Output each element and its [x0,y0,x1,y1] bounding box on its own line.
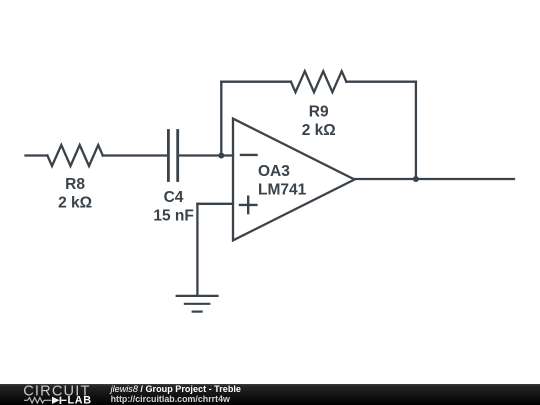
wire input left [26,154,48,156]
node A junction dot [218,153,224,159]
label op-amp OA3 [258,163,290,180]
feedback wire top right [346,81,416,83]
output node junction dot [413,176,419,182]
svg-text:R8: R8 [65,176,85,193]
wire output [355,178,515,180]
feedback wire left vertical [220,82,222,156]
svg-text:LAB: LAB [68,395,92,405]
svg-text:2 kΩ: 2 kΩ [58,195,92,212]
feedback wire right vertical [415,82,417,179]
op-amp U1 triangle [233,119,355,241]
svg-text:http://circuitlab.com/chrrt4w: http://circuitlab.com/chrrt4w [111,394,230,404]
capacitor C4 [168,131,177,181]
op-amp non-inverting input plus sign [240,197,256,213]
label R8 [65,176,85,193]
label R8 value 2 kOhm [58,195,92,212]
footer title text jlewis8 / Group Project - Treble [109,384,241,394]
resistor R9 [291,71,346,92]
svg-text:C4: C4 [164,189,184,206]
wire to ground [196,204,198,296]
svg-text:2 kΩ: 2 kΩ [302,122,336,139]
label R9 value 2 kOhm [302,122,336,139]
svg-text:OA3: OA3 [258,163,290,180]
feedback wire top left [221,81,291,83]
CircuitLab logo LAB text [68,395,92,405]
label C4 value 15 nF [153,208,193,225]
footer bar [0,384,540,405]
svg-text:LM741: LM741 [258,182,307,199]
svg-text:15 nF: 15 nF [153,208,193,225]
ground [177,296,218,312]
wire R8 to C4 [103,154,167,156]
svg-text:R9: R9 [309,104,329,121]
wire C4 to op-amp inverting input [179,154,233,156]
wire non-inverting input [197,203,233,205]
CircuitLab logo diode symbol [52,397,67,404]
op-amp inverting input minus sign [241,154,257,156]
label C4 [164,189,184,206]
CircuitLab logo resistor squiggle [24,398,51,404]
CircuitLab logo CIRCUIT text [23,384,90,400]
footer url text [111,394,230,404]
label R9 [309,104,329,121]
svg-text:jlewis8 / Group Project - Treb: jlewis8 / Group Project - Treble [109,384,241,394]
label op-amp LM741 [258,182,307,199]
resistor R8 [47,145,102,166]
